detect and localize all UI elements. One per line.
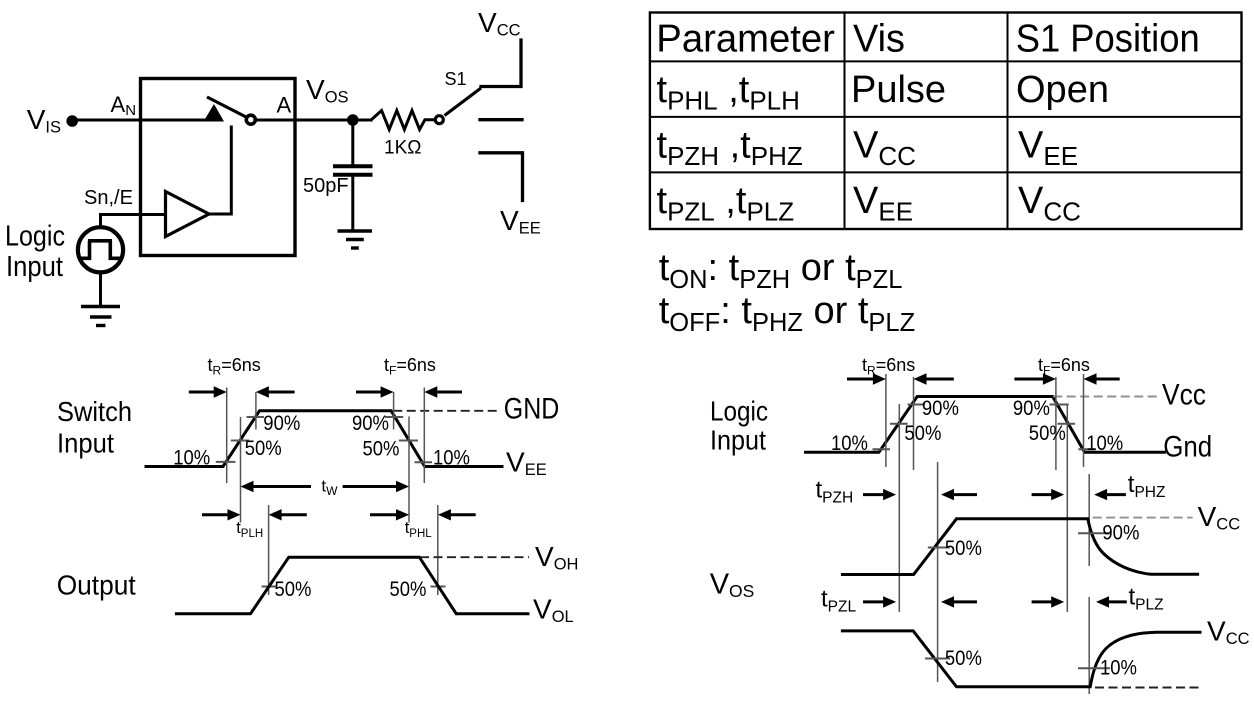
svg-text:10%: 10% — [173, 445, 210, 469]
output waveform — [176, 557, 528, 614]
svg-text:10%: 10% — [831, 431, 868, 455]
table row line 3 — [650, 171, 1242, 173]
capacitor C1 bottom plate — [333, 173, 373, 177]
capacitor C1 lead upper — [351, 120, 354, 164]
measure line 90% fall — [393, 392, 395, 430]
tF arrow right right-panel — [1084, 373, 1097, 384]
tF arrow right — [424, 386, 437, 397]
tR arrow right — [256, 386, 269, 397]
svg-text:50%: 50% — [390, 577, 427, 601]
svg-text:50%: 50% — [945, 646, 982, 670]
tR arrow left — [189, 391, 215, 394]
wire VIS input — [72, 119, 206, 122]
tick VOS 10% — [1078, 667, 1110, 669]
switch S1 blade — [445, 88, 482, 116]
S1 throw VEE lead — [480, 153, 523, 201]
dashed level lower — [1095, 687, 1200, 689]
tPZL arrow b — [941, 596, 954, 607]
svg-text:Parameter: Parameter — [656, 18, 835, 61]
tick 50% rise right — [890, 423, 908, 425]
tPHZ arrow b — [1094, 489, 1107, 500]
measure line 50% rise input — [240, 417, 242, 523]
svg-text:Gnd: Gnd — [1163, 430, 1212, 463]
svg-text:Output: Output — [57, 570, 136, 601]
switch contact circle — [246, 115, 255, 124]
svg-text:50pF: 50pF — [303, 175, 349, 197]
tick 90% rise right — [908, 404, 926, 406]
tPLH arrow left — [202, 513, 228, 516]
VOS waveform lower — [842, 631, 1200, 687]
measure line 90% fall right — [1055, 377, 1057, 470]
measure line 90% rise — [255, 392, 257, 430]
measure line 50% rise right — [898, 404, 900, 612]
capacitor C1 top plate — [333, 164, 373, 168]
svg-text:Vcc: Vcc — [1162, 379, 1206, 412]
wire logic input to buffer — [101, 215, 166, 227]
svg-text:S1 Position: S1 Position — [1016, 18, 1200, 61]
ground under pulse source — [81, 307, 120, 326]
measure line 10% rise right — [885, 374, 887, 467]
tPHL arrow right — [438, 509, 451, 520]
tick 10% fall right — [1078, 448, 1096, 450]
svg-text:50%: 50% — [245, 436, 282, 460]
svg-text:Open: Open — [1016, 69, 1109, 111]
tick 50% output fall — [431, 586, 446, 588]
svg-text:90%: 90% — [922, 396, 959, 420]
tF arrow left right-panel — [1014, 378, 1043, 381]
measure line 90% rise right — [913, 377, 915, 470]
table column line 2 — [1007, 13, 1009, 230]
svg-text:90%: 90% — [263, 411, 300, 435]
svg-text:Logic: Logic — [5, 220, 65, 252]
svg-text:10%: 10% — [1086, 431, 1123, 455]
tPHZ arrow a — [1032, 493, 1052, 496]
svg-text:50%: 50% — [904, 421, 941, 445]
tick VOS rise 50% — [928, 547, 950, 549]
svg-text:90%: 90% — [1102, 521, 1139, 545]
switch input waveform — [146, 411, 502, 467]
svg-text:Input: Input — [57, 428, 114, 459]
tW arrow right — [343, 485, 397, 488]
measure line VOS 10% lower — [1088, 597, 1090, 694]
S1 middle open throw contact — [480, 118, 522, 121]
tPZH arrow b — [941, 489, 954, 500]
table row line 1 — [650, 60, 1242, 62]
tPZH arrow — [863, 493, 884, 496]
measure line 10% fall right — [1083, 374, 1085, 467]
tick 10% rise right — [873, 448, 891, 450]
svg-text:Sn,/E: Sn,/E — [84, 187, 133, 209]
tR arrow left right-panel — [847, 378, 873, 381]
tPZL arrow a — [863, 600, 884, 603]
measure line VOS rise 50% — [937, 462, 939, 682]
switch blade — [207, 97, 250, 119]
wire source to ground — [99, 272, 102, 306]
table column line 1 — [844, 13, 846, 230]
pulse source V1 circle — [78, 227, 123, 272]
svg-text:10%: 10% — [433, 446, 470, 470]
tR arrow right right-panel — [914, 373, 927, 384]
tF arrow left — [356, 391, 381, 394]
VOS waveform upper — [842, 519, 1197, 575]
svg-text:50%: 50% — [363, 437, 400, 461]
svg-text:50%: 50% — [275, 577, 312, 601]
tick VOS fall 50% — [925, 658, 950, 660]
measure line 10% fall — [423, 388, 425, 484]
measure line 50% fall input — [408, 417, 410, 523]
tPLZ arrow a — [1032, 600, 1052, 603]
measure line 50% fall right — [1066, 404, 1068, 612]
tick 90% fall — [385, 416, 403, 418]
tick 50% fall — [399, 440, 418, 442]
tPLH arrow right — [269, 509, 282, 520]
svg-text:GND: GND — [504, 393, 560, 426]
svg-text:Input: Input — [710, 425, 766, 456]
wire A to node — [256, 119, 372, 122]
svg-text:90%: 90% — [1013, 396, 1050, 420]
measure line 10% rise — [226, 388, 228, 484]
tick 90% fall right — [1050, 404, 1069, 406]
S1 throw VCC lead — [481, 40, 521, 87]
VCC dashed upper — [1093, 517, 1193, 519]
tick 50% output rise — [262, 586, 277, 588]
pulse source symbol — [80, 241, 120, 258]
svg-text:1KΩ: 1KΩ — [384, 138, 421, 159]
GND dashed level — [393, 410, 500, 412]
VOH dashed level — [420, 556, 529, 558]
resistor R1 1Kohm — [371, 111, 435, 130]
tPLZ arrow b — [1096, 596, 1109, 607]
ground under capacitor — [338, 231, 373, 248]
device box U1 — [141, 79, 296, 256]
svg-text:10%: 10% — [1100, 656, 1137, 680]
logic input waveform — [806, 397, 1165, 453]
tick VOS 90% — [1078, 532, 1110, 534]
switch moving contact arrow — [204, 104, 225, 122]
tick 90% rise — [247, 416, 264, 418]
svg-text:S1: S1 — [445, 69, 467, 89]
junction dot VOS node — [347, 114, 359, 126]
tick 50% rise — [231, 440, 249, 442]
tick 50% fall right — [1058, 423, 1076, 425]
svg-text:A: A — [277, 93, 292, 118]
wire buffer to switch control — [209, 127, 231, 214]
capacitor C1 lead lower — [351, 177, 354, 231]
Vcc dashed level — [1053, 396, 1160, 398]
table frame — [650, 13, 1242, 230]
svg-text:Pulse: Pulse — [851, 69, 946, 111]
measure line VOS 90% upper — [1088, 474, 1090, 566]
svg-text:Vis: Vis — [853, 18, 905, 61]
switch S1 pole circle — [435, 116, 443, 124]
svg-text:Input: Input — [6, 251, 63, 283]
tick 10% fall — [415, 461, 433, 463]
tW arrow left — [241, 481, 254, 492]
buffer driver — [166, 192, 210, 237]
svg-text:Logic: Logic — [710, 395, 768, 426]
svg-text:50%: 50% — [945, 536, 982, 560]
svg-text:50%: 50% — [1029, 421, 1066, 445]
measure line 50% output fall — [437, 505, 439, 595]
svg-text:Switch: Switch — [57, 396, 132, 427]
tPHL arrow left — [370, 513, 397, 516]
tick 10% rise — [216, 461, 236, 463]
table row line 2 — [650, 116, 1242, 118]
measure line 50% output rise — [268, 505, 270, 595]
svg-text:90%: 90% — [352, 411, 389, 435]
node VIS terminal dot — [66, 115, 78, 127]
